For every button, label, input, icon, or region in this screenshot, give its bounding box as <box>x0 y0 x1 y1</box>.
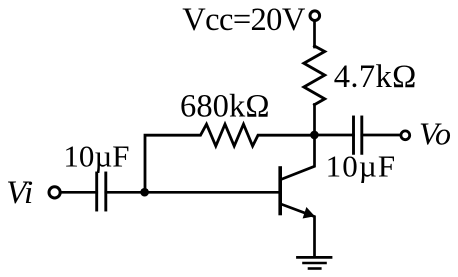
svg-text:10µF: 10µF <box>63 138 129 173</box>
svg-text:4.7kΩ: 4.7kΩ <box>334 59 417 95</box>
svg-text:10µF: 10µF <box>326 148 396 183</box>
svg-text:Vo: Vo <box>419 115 451 151</box>
svg-text:680kΩ: 680kΩ <box>180 88 270 124</box>
svg-text:Vcc=20V: Vcc=20V <box>182 2 306 38</box>
svg-text:Vi: Vi <box>6 175 33 211</box>
